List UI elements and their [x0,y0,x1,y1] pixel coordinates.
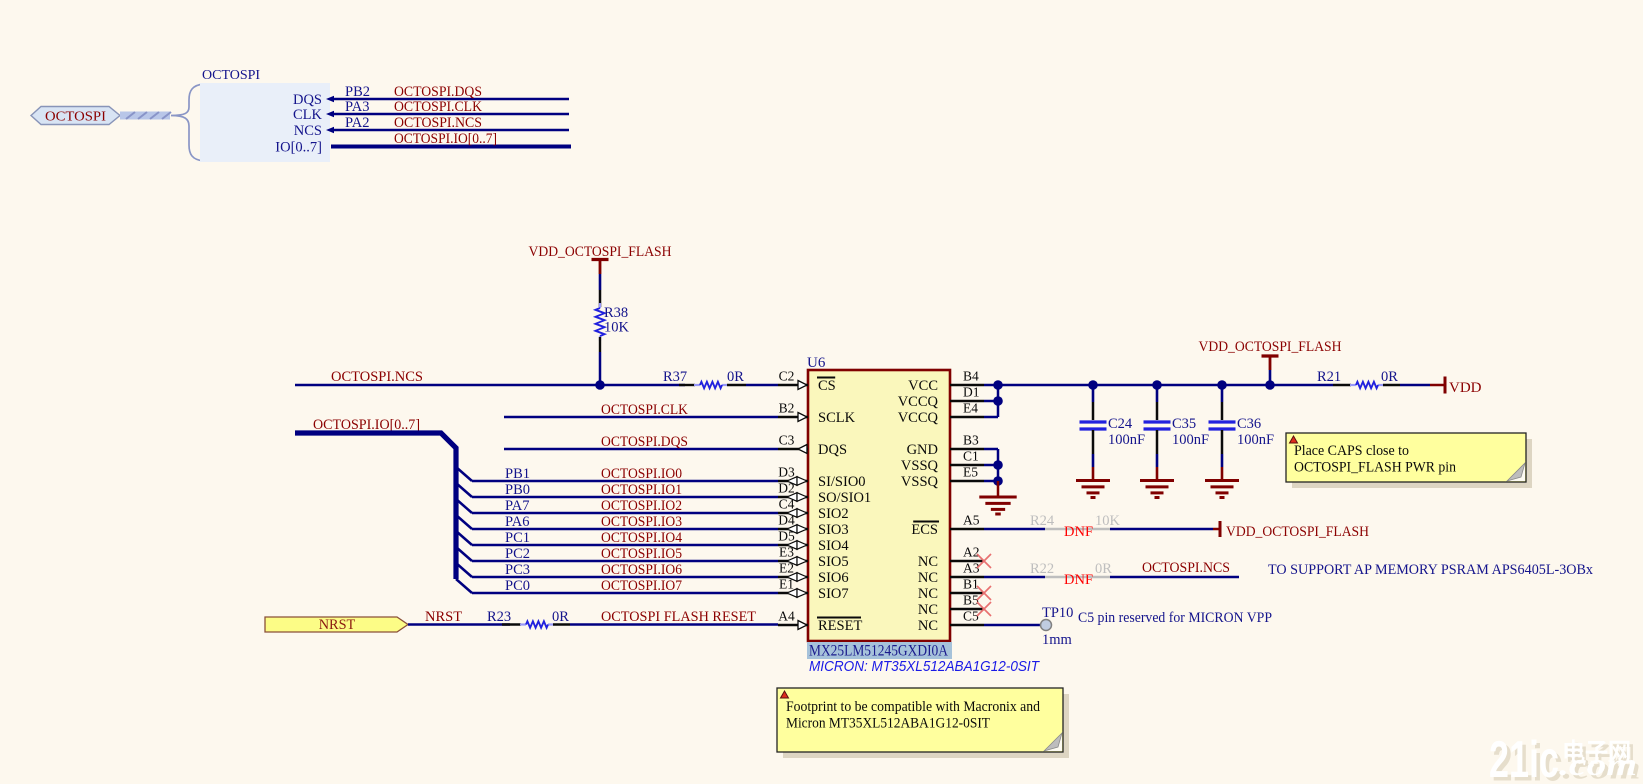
svg-text:E2: E2 [779,561,794,576]
svg-text:OCTOSPI.CLK: OCTOSPI.CLK [601,402,688,418]
svg-text:CS: CS [818,378,836,394]
svg-text:VDD_OCTOSPI_FLASH: VDD_OCTOSPI_FLASH [1199,339,1342,355]
svg-text:R23: R23 [487,609,511,625]
svg-text:TP10: TP10 [1042,605,1073,621]
svg-text:NCS: NCS [294,123,322,139]
svg-text:OCTOSPI.NCS: OCTOSPI.NCS [394,115,482,131]
svg-text:NC: NC [918,554,938,570]
svg-text:PA7: PA7 [505,498,529,514]
svg-text:RESET: RESET [818,618,862,634]
svg-text:PC0: PC0 [505,578,530,594]
svg-text:NC: NC [918,570,938,586]
svg-text:OCTOSPI.IO2: OCTOSPI.IO2 [601,498,682,514]
svg-text:TO SUPPORT AP MEMORY PSRAM APS: TO SUPPORT AP MEMORY PSRAM APS6405L-3OBx [1268,562,1594,578]
svg-text:SCLK: SCLK [818,410,856,426]
svg-text:DQS: DQS [818,442,847,458]
svg-text:Footprint to be compatible wit: Footprint to be compatible with Macronix… [786,699,1040,715]
svg-text:C24: C24 [1108,416,1133,432]
svg-text:21ic: 21ic [1489,731,1559,784]
svg-text:D3: D3 [778,465,795,480]
svg-text:C1: C1 [963,449,979,464]
svg-text:VSSQ: VSSQ [901,458,939,474]
svg-text:VDD: VDD [1449,380,1482,396]
svg-text:SIO2: SIO2 [818,506,849,522]
svg-text:OCTOSPI.IO4: OCTOSPI.IO4 [601,530,683,546]
svg-text:E3: E3 [779,545,794,560]
svg-text:C5: C5 [963,609,979,624]
svg-text:VSSQ: VSSQ [901,474,939,490]
svg-text:B1: B1 [963,577,979,592]
svg-text:OCTOSPI: OCTOSPI [202,68,260,83]
svg-text:D1: D1 [963,385,980,400]
svg-text:Micron MT35XL512ABA1G12-0SIT: Micron MT35XL512ABA1G12-0SIT [786,716,990,732]
svg-text:VDD_OCTOSPI_FLASH: VDD_OCTOSPI_FLASH [529,244,672,260]
svg-text:B3: B3 [963,433,979,448]
svg-text:PB1: PB1 [505,466,530,482]
svg-text:D2: D2 [778,481,795,496]
svg-text:R21: R21 [1317,369,1341,385]
svg-text:NRST: NRST [425,609,462,625]
svg-text:A5: A5 [963,513,980,528]
svg-text:100nF: 100nF [1108,432,1145,448]
svg-text:R22: R22 [1030,561,1054,577]
svg-text:D4: D4 [778,513,795,528]
svg-text:OCTOSPI.NCS: OCTOSPI.NCS [331,369,423,385]
svg-text:E5: E5 [963,465,978,480]
svg-text:OCTOSPI.IO7: OCTOSPI.IO7 [601,578,682,594]
svg-text:DNF: DNF [1064,524,1093,540]
svg-text:MICRON: MT35XL512ABA1G12-0SIT: MICRON: MT35XL512ABA1G12-0SIT [809,658,1041,675]
svg-text:CLK: CLK [293,107,323,123]
svg-text:OCTOSPI.CLK: OCTOSPI.CLK [394,99,482,115]
svg-text:GND: GND [907,442,938,458]
svg-text:PC2: PC2 [505,546,530,562]
svg-text:NC: NC [918,618,938,634]
svg-text:SIO7: SIO7 [818,586,849,602]
svg-text:OCTOSPI.DQS: OCTOSPI.DQS [601,434,688,450]
svg-text:SIO3: SIO3 [818,522,849,538]
svg-text:A2: A2 [963,545,980,560]
svg-text:0R: 0R [552,609,569,625]
svg-text:A4: A4 [778,609,795,624]
svg-text:VCCQ: VCCQ [898,410,939,426]
svg-text:OCTOSPI.IO3: OCTOSPI.IO3 [601,514,682,530]
svg-text:OCTOSPI.DQS: OCTOSPI.DQS [394,84,482,100]
svg-text:PA3: PA3 [345,99,369,115]
svg-text:1mm: 1mm [1042,632,1073,648]
svg-text:SIO5: SIO5 [818,554,849,570]
svg-text:C5 pin reserved for MICRON VPP: C5 pin reserved for MICRON VPP [1078,610,1272,626]
svg-text:SIO4: SIO4 [818,538,849,554]
svg-text:OCTOSPI.IO6: OCTOSPI.IO6 [601,562,682,578]
svg-text:NRST: NRST [319,617,356,633]
svg-text:OCTOSPI_FLASH PWR pin: OCTOSPI_FLASH PWR pin [1294,460,1456,476]
svg-text:OCTOSPI FLASH RESET: OCTOSPI FLASH RESET [601,609,756,625]
svg-text:OCTOSPI.IO[0..7]: OCTOSPI.IO[0..7] [394,131,497,147]
svg-text:MX25LM51245GXDI0A: MX25LM51245GXDI0A [809,643,948,660]
svg-text:0R: 0R [1381,369,1398,385]
svg-text:PB0: PB0 [505,482,530,498]
svg-text:NC: NC [918,586,938,602]
svg-text:SO/SIO1: SO/SIO1 [818,490,871,506]
svg-text:PC1: PC1 [505,530,530,546]
svg-text:OCTOSPI.IO1: OCTOSPI.IO1 [601,482,682,498]
svg-text:E1: E1 [779,577,794,592]
svg-text:DQS: DQS [293,92,322,108]
svg-text:C3: C3 [779,433,795,448]
svg-text:VDD_OCTOSPI_FLASH: VDD_OCTOSPI_FLASH [1226,524,1369,540]
svg-text:100nF: 100nF [1237,432,1274,448]
svg-text:10K: 10K [604,320,630,336]
svg-text:R37: R37 [663,369,687,385]
svg-text:OCTOSPI.IO5: OCTOSPI.IO5 [601,546,682,562]
svg-text:B5: B5 [963,593,979,608]
svg-text:B4: B4 [963,369,979,384]
svg-text:D5: D5 [778,529,795,544]
svg-text:10K: 10K [1095,513,1121,529]
svg-text:PA2: PA2 [345,115,369,131]
svg-text:100nF: 100nF [1172,432,1209,448]
svg-text:SI/SIO0: SI/SIO0 [818,474,866,490]
svg-text:DNF: DNF [1064,572,1093,588]
svg-text:PA6: PA6 [505,514,529,530]
svg-text:R24: R24 [1030,513,1055,529]
svg-text:B2: B2 [779,401,795,416]
svg-text:.com: .com [1559,746,1637,782]
svg-text:C36: C36 [1237,416,1261,432]
svg-text:VCCQ: VCCQ [898,394,939,410]
svg-text:OCTOSPI.IO0: OCTOSPI.IO0 [601,466,682,482]
svg-text:SIO6: SIO6 [818,570,849,586]
svg-text:PC3: PC3 [505,562,530,578]
svg-text:C4: C4 [779,497,795,512]
svg-text:0R: 0R [1095,561,1112,577]
svg-text:E4: E4 [963,401,978,416]
svg-text:U6: U6 [807,355,826,371]
svg-text:C35: C35 [1172,416,1196,432]
svg-text:0R: 0R [727,369,744,385]
svg-text:PB2: PB2 [345,84,370,100]
svg-text:OCTOSPI.NCS: OCTOSPI.NCS [1142,560,1230,576]
svg-text:C2: C2 [779,369,795,384]
svg-text:ECS: ECS [911,522,938,538]
svg-text:IO[0..7]: IO[0..7] [275,140,322,156]
svg-text:NC: NC [918,602,938,618]
svg-text:VCC: VCC [908,378,938,394]
svg-text:Place CAPS close to: Place CAPS close to [1294,443,1409,459]
svg-text:OCTOSPI: OCTOSPI [45,109,106,124]
